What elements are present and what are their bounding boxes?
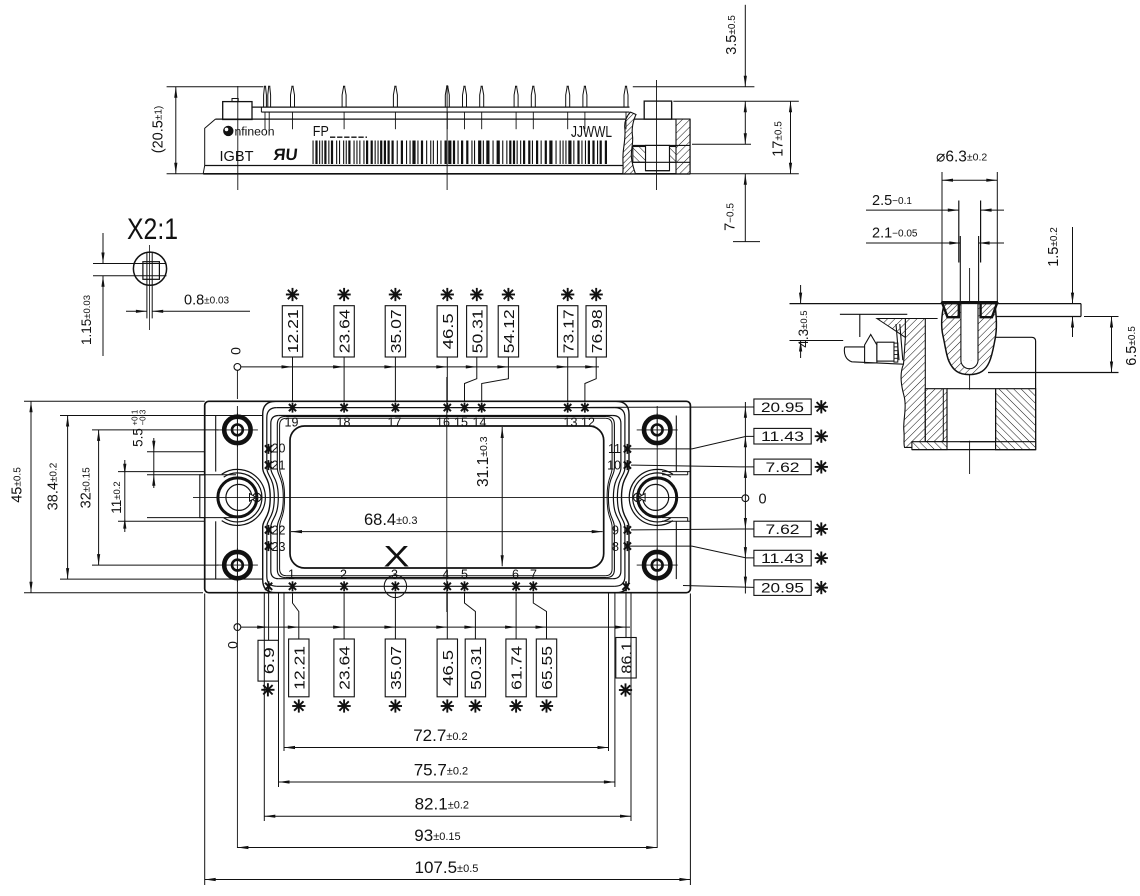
right datum 0 circle	[742, 495, 749, 502]
svg-text:16: 16	[436, 416, 450, 430]
leader line for bottom box 50.31	[465, 593, 476, 639]
bottom dimension arrow at 65.55	[536, 626, 547, 629]
svg-text:11.43: 11.43	[761, 428, 804, 444]
leader line for right box 20.95 bottom	[683, 586, 754, 588]
side view: right section outer column	[676, 119, 690, 174]
top dimension arrow at 12.21	[282, 365, 293, 368]
svg-text:⌀6.3±0.2: ⌀6.3±0.2	[936, 149, 987, 166]
svg-text:17±0.5: 17±0.5	[771, 121, 787, 157]
asterisk below box 12.21	[292, 705, 305, 707]
leader line for bottom box 23.64	[343, 593, 345, 639]
side view: left mounting flange	[223, 102, 252, 120]
svg-text:76.98: 76.98	[590, 309, 606, 353]
dimension 6.5±0.5	[1111, 317, 1113, 373]
top dimension box 12.21	[282, 306, 302, 357]
svg-text:45±0.5: 45±0.5	[10, 467, 26, 503]
svg-text:15: 15	[454, 416, 468, 430]
section: clamp spring hatched wedge	[877, 319, 906, 338]
section: screw boss tub interior	[948, 390, 995, 441]
side view: UL recognized mark	[273, 145, 299, 164]
side view: right section surface lines	[633, 144, 690, 146]
bottom dimension arrow at 23.64	[333, 626, 344, 629]
asterisk below box 35.07	[389, 705, 402, 707]
svg-text:7.62: 7.62	[766, 459, 800, 475]
plan view: right big hole	[638, 478, 677, 517]
asterisk right of box 11.43	[815, 435, 828, 437]
dimension 11±0.2 spring tab	[124, 460, 126, 532]
plan view: housing wall line 1 right	[616, 401, 629, 592]
leader line for bottom box 65.55	[533, 593, 546, 639]
svg-text:9: 9	[612, 524, 619, 538]
plan view: horizontal centerline	[193, 496, 742, 498]
svg-text:2.5−0.1: 2.5−0.1	[872, 193, 912, 209]
bottom datum 0 circle	[234, 624, 241, 631]
svg-text:X: X	[384, 541, 410, 574]
svg-text:7: 7	[530, 568, 537, 582]
dimension 93±0.15 mounting hole spacing	[237, 847, 657, 849]
svg-text:46.5: 46.5	[441, 313, 457, 349]
dimension 2.1-0.05	[866, 242, 960, 244]
bottom dimension arrow at 12.21	[288, 626, 299, 629]
svg-text:1.5±0.2: 1.5±0.2	[1046, 227, 1062, 267]
asterisk right of box 7.62	[815, 528, 828, 530]
svg-text:14: 14	[473, 416, 487, 430]
section: housing top surface	[790, 303, 944, 305]
svg-text:65.55: 65.55	[540, 646, 556, 690]
svg-text:54.12: 54.12	[502, 309, 518, 353]
svg-text:86.1: 86.1	[620, 642, 636, 674]
plan view: detail X marker at pin 3	[384, 575, 406, 597]
svg-text:12.21: 12.21	[292, 646, 308, 690]
svg-text:32±0.15: 32±0.15	[79, 467, 95, 509]
svg-text:50.31: 50.31	[469, 646, 485, 690]
leader line for top box 76.98	[585, 357, 596, 402]
asterisk below box 6.9	[261, 689, 274, 691]
leader line for bottom box 6.9	[268, 593, 270, 641]
side view: barcode	[313, 141, 314, 165]
svg-text:46.5: 46.5	[441, 650, 457, 686]
dimension 2.5-0.1	[866, 209, 959, 211]
bottom dimension arrow at 6.9	[257, 626, 268, 629]
right dimension arrow at 20.95	[744, 577, 747, 588]
leader line for top box 54.12	[482, 357, 509, 402]
section: left wavy hatched wall	[901, 319, 925, 448]
dimension 0.8±0.03 pin width	[126, 310, 147, 312]
dimension 72.7±0.2 with extension lines	[283, 594, 285, 752]
section: clip area surface lines	[840, 313, 907, 315]
svg-text:(20.5±1): (20.5±1)	[151, 106, 167, 153]
section: housing step right	[1080, 304, 1082, 317]
plan view: pin position marks top row	[289, 404, 296, 411]
top dimension arrow at 23.64	[333, 365, 344, 368]
svg-text:2.1−0.05: 2.1−0.05	[872, 226, 918, 242]
top dimension arrow at 76.98	[585, 365, 596, 368]
asterisk right of box 7.62	[815, 466, 828, 468]
leader line for bottom box 46.5	[446, 593, 448, 639]
section: pin holder pear-shaped boss	[942, 304, 997, 375]
section: clamp body rect block	[877, 342, 894, 361]
side view: right end section hatching - wavy housing wall	[623, 112, 636, 174]
dimension 31.1±0.3 cavity height	[501, 427, 503, 566]
asterisk below box 23.64	[338, 705, 351, 707]
dimension (20.5±1) overall height with extension lines	[167, 86, 264, 88]
plan view: pin position marks bottom row	[265, 583, 272, 590]
bottom dimension box 50.31	[465, 639, 485, 697]
svg-text:73.17: 73.17	[561, 309, 577, 353]
svg-text:7−0.5: 7−0.5	[723, 203, 739, 231]
dimension 7-0.5 mounting standoff	[744, 174, 746, 242]
leader line for top box 12.21	[292, 357, 294, 402]
leader line for right box 11.43 bottom	[627, 546, 754, 558]
section: screw boss tub right wall	[996, 389, 1036, 450]
side view: module body outline	[203, 119, 215, 174]
section: pin centerline	[969, 268, 971, 474]
svg-text:7.62: 7.62	[766, 521, 800, 537]
svg-text:0: 0	[227, 347, 243, 355]
top dimension box 46.5	[437, 306, 457, 357]
leader line for right box 7.62 bottom	[631, 528, 754, 531]
plan view: vertical centerline right hole column	[656, 406, 658, 848]
leader line for bottom box 86.1	[625, 593, 627, 638]
svg-text:6: 6	[512, 568, 519, 582]
section: clamp body small house block	[865, 335, 877, 364]
side view: right section screw channel	[646, 145, 670, 170]
leader line for bottom box 12.21	[293, 593, 299, 639]
plan view: pin position marks left column	[265, 445, 272, 452]
top dimension box 23.64	[334, 306, 354, 357]
asterisk right of box 11.43	[815, 557, 828, 559]
plan view: baseplate outline	[205, 401, 691, 592]
side view: right mounting flange	[644, 101, 671, 119]
plan view: cavity edge	[290, 426, 604, 568]
bottom dimension line	[241, 626, 630, 628]
detail X: pin square	[143, 262, 160, 280]
bottom dimension arrow at 35.07	[384, 626, 395, 629]
top dimension box 50.31	[467, 306, 487, 357]
dimension 107.5±0.5 overall length with extension lines	[204, 594, 206, 886]
svg-text:11: 11	[608, 442, 621, 456]
svg-text:18: 18	[337, 416, 351, 430]
section: clamp spring arm diagonals	[896, 324, 899, 360]
dimension 45±0.5 overall width	[24, 400, 205, 402]
asterisk above box 23.64	[338, 294, 351, 296]
leader line for right box 7.62 top	[631, 465, 754, 467]
svg-text:ЯU: ЯU	[273, 145, 299, 164]
right dimension box 7.62	[754, 521, 811, 537]
svg-text:13: 13	[564, 416, 578, 430]
svg-text:61.74: 61.74	[510, 646, 526, 690]
plan view: right big hole collar arcs	[633, 473, 671, 522]
svg-text:23.64: 23.64	[338, 646, 354, 690]
svg-text:nfineon: nfineon	[235, 127, 275, 139]
svg-text:10: 10	[607, 459, 621, 473]
svg-text:4: 4	[443, 568, 450, 582]
svg-text:38.4±0.2: 38.4±0.2	[46, 462, 62, 510]
bottom dimension box 12.21	[289, 639, 309, 697]
asterisk above box 76.98	[590, 294, 603, 296]
leader line for right box 20.95 top	[590, 406, 754, 408]
svg-text:19: 19	[285, 416, 299, 430]
svg-text:17: 17	[388, 416, 402, 430]
side view: pins	[264, 86, 267, 107]
asterisk above box 50.31	[470, 294, 483, 296]
top dimension arrow at 73.17	[557, 365, 568, 368]
leader line for top box 50.31	[465, 357, 477, 402]
svg-text:JJWWL: JJWWL	[571, 124, 612, 141]
dimension 82.1±0.2 with extension lines	[263, 594, 265, 822]
section: pin channel inside boss	[961, 304, 978, 360]
dimension 5.5 +0.1/-0.3	[153, 438, 155, 488]
bottom dimension box 86.1	[616, 638, 636, 679]
bottom dimension box 23.64	[334, 639, 354, 697]
asterisk above box 73.17	[561, 294, 574, 296]
dimension 1.15±0.03 pin thickness	[102, 233, 104, 264]
section: clip left outline	[844, 347, 903, 364]
side view: Infineon logo	[224, 126, 233, 135]
dimension 75.7±0.2 with extension lines	[278, 594, 280, 788]
leader line for top box 23.64	[343, 357, 345, 402]
svg-text:3.5±0.5: 3.5±0.5	[724, 15, 740, 55]
svg-text:31.1±0.3: 31.1±0.3	[475, 436, 492, 487]
bottom dimension arrow at 86.1	[615, 626, 626, 629]
dimension 17±0.5 module height	[692, 143, 751, 145]
svg-text:−0.3: −0.3	[139, 409, 148, 425]
right dimension box 20.95	[754, 580, 811, 596]
plan view: housing wall line 2	[267, 408, 277, 587]
dimension 32±0.15 mounting hole spacing	[92, 429, 219, 431]
side view: right section washer left	[633, 147, 646, 163]
dimension 38.4±0.2	[67, 416, 69, 580]
top dimension arrow at 46.5	[436, 365, 447, 368]
plan view: corner mounting holes	[224, 417, 250, 443]
right dimension arrow at 11.43	[744, 547, 747, 558]
asterisk right of box 20.95	[815, 406, 828, 408]
section: collar cup wedges	[942, 303, 959, 317]
svg-text:5: 5	[461, 568, 468, 582]
side view: screw axis centerline right	[656, 80, 658, 190]
asterisk above box 46.5	[441, 294, 454, 296]
right dimension box 7.62	[754, 459, 811, 475]
dimension 68.4±0.3 cavity width	[291, 531, 603, 533]
plan view: right edge notch	[662, 471, 690, 473]
top dimension arrow at 35.07	[384, 365, 395, 368]
dimension 4.3±0.5 clip height	[800, 285, 802, 304]
plan view: pin position marks right column	[624, 445, 631, 452]
svg-text:0: 0	[759, 492, 767, 508]
right dimension box 11.43	[754, 428, 811, 444]
svg-text:8: 8	[612, 540, 619, 554]
right vertical dimension line	[744, 402, 746, 594]
svg-text:20.95: 20.95	[761, 580, 804, 596]
asterisk below box 46.5	[441, 705, 454, 707]
svg-text:0: 0	[224, 641, 240, 649]
top dimension box 76.98	[586, 306, 606, 357]
side view: screw axis centerline left	[237, 86, 239, 190]
svg-text:FP: FP	[313, 124, 329, 140]
leader line for top box 35.07	[394, 357, 396, 402]
right dimension arrow at 11.43	[744, 436, 747, 447]
asterisk above box 54.12	[502, 294, 515, 296]
bottom dimension box 61.74	[506, 639, 526, 697]
right dimension box 11.43	[754, 550, 811, 566]
svg-text:11.43: 11.43	[761, 550, 804, 566]
right dimension arrow at 7.62	[744, 518, 747, 529]
svg-text:IGBT: IGBT	[220, 148, 254, 165]
top dimension box 73.17	[558, 306, 578, 357]
asterisk below box 65.55	[540, 705, 553, 707]
leader line for right box 11.43 top	[627, 436, 754, 449]
top dimension arrow at 50.31	[466, 365, 477, 368]
bottom dimension box 65.55	[536, 639, 556, 697]
svg-text:X2:1: X2:1	[127, 213, 178, 246]
svg-text:50.31: 50.31	[470, 309, 486, 353]
svg-text:35.07: 35.07	[389, 309, 405, 353]
plan view: housing wall line 3	[271, 416, 279, 579]
svg-text:23: 23	[272, 540, 286, 554]
plan view: inner rim double line	[277, 417, 285, 578]
plan view: vertical module centerline	[446, 377, 448, 612]
svg-text:1: 1	[288, 568, 295, 582]
right dimension box 20.95	[754, 399, 811, 415]
svg-text:1.15±0.03: 1.15±0.03	[79, 295, 94, 345]
asterisk below box 61.74	[510, 705, 523, 707]
plan view: left edge notch and spring tab	[200, 475, 205, 518]
dimension 3.5±0.5 pin height above flange	[633, 86, 755, 88]
plan view: housing wall line 1 left	[263, 401, 276, 592]
asterisk above box 12.21	[286, 294, 299, 296]
svg-text:6.5±0.5: 6.5±0.5	[1124, 326, 1140, 366]
right dimension arrow at 20.95	[744, 407, 747, 418]
leader line for bottom box 35.07	[394, 593, 396, 639]
side view: right section washer right	[670, 147, 690, 163]
leader line for top box 46.5	[446, 357, 448, 402]
asterisk right of box 20.95	[815, 587, 828, 589]
svg-text:23.64: 23.64	[338, 309, 354, 353]
svg-text:20.95: 20.95	[761, 399, 804, 415]
svg-text:22: 22	[272, 524, 286, 538]
right dimension arrow at 7.62	[744, 467, 747, 478]
plan view: vertical centerline left hole column	[236, 406, 238, 848]
dimension 1.5±0.2	[1072, 227, 1074, 304]
svg-text:11±0.2: 11±0.2	[109, 481, 124, 513]
plan view: left big hole	[218, 478, 257, 517]
svg-text:35.07: 35.07	[389, 646, 405, 690]
side view: module centerline	[446, 85, 448, 190]
leader line for bottom box 61.74	[515, 593, 517, 639]
section: pin terminal lines	[958, 201, 960, 263]
bottom dimension box 6.9	[258, 640, 278, 681]
section: collar diameter extension lines	[941, 172, 943, 303]
svg-text:21: 21	[272, 459, 286, 473]
leader line for top box 73.17	[567, 357, 569, 402]
asterisk above box 35.07	[389, 294, 402, 296]
asterisk below box 86.1	[619, 689, 632, 691]
section: clamp spring ladder	[894, 343, 898, 362]
section: screw boss tub left wall	[925, 389, 947, 442]
svg-text:4.3±0.5: 4.3±0.5	[796, 310, 811, 347]
bottom dimension box 35.07	[385, 639, 405, 697]
plan view: left big hole collar arcs	[224, 473, 262, 522]
top datum 0 circle	[234, 364, 241, 371]
top dimension box 35.07	[385, 306, 405, 357]
section: tub bottom flange	[912, 442, 947, 450]
side view: housing top double line	[252, 106, 630, 108]
top dimension arrow at 54.12	[497, 365, 508, 368]
bottom dimension box 46.5	[437, 639, 457, 697]
detail X: pin cross-section circle	[133, 252, 166, 285]
svg-text:12: 12	[581, 416, 595, 430]
bottom dimension arrow at 61.74	[505, 626, 516, 629]
svg-text:20: 20	[272, 442, 286, 456]
svg-text:5.5: 5.5	[131, 428, 146, 447]
dimension Ø6.3±0.2	[942, 179, 997, 181]
svg-text:0.8±0.03: 0.8±0.03	[184, 293, 230, 309]
asterisk below box 50.31	[469, 705, 482, 707]
svg-text:12.21: 12.21	[286, 309, 302, 353]
svg-text:2: 2	[340, 568, 347, 582]
bottom dimension arrow at 50.31	[464, 626, 475, 629]
top dimension box 54.12	[498, 306, 518, 357]
top dimension line	[241, 366, 599, 368]
bottom dimension arrow at 46.5	[436, 626, 447, 629]
